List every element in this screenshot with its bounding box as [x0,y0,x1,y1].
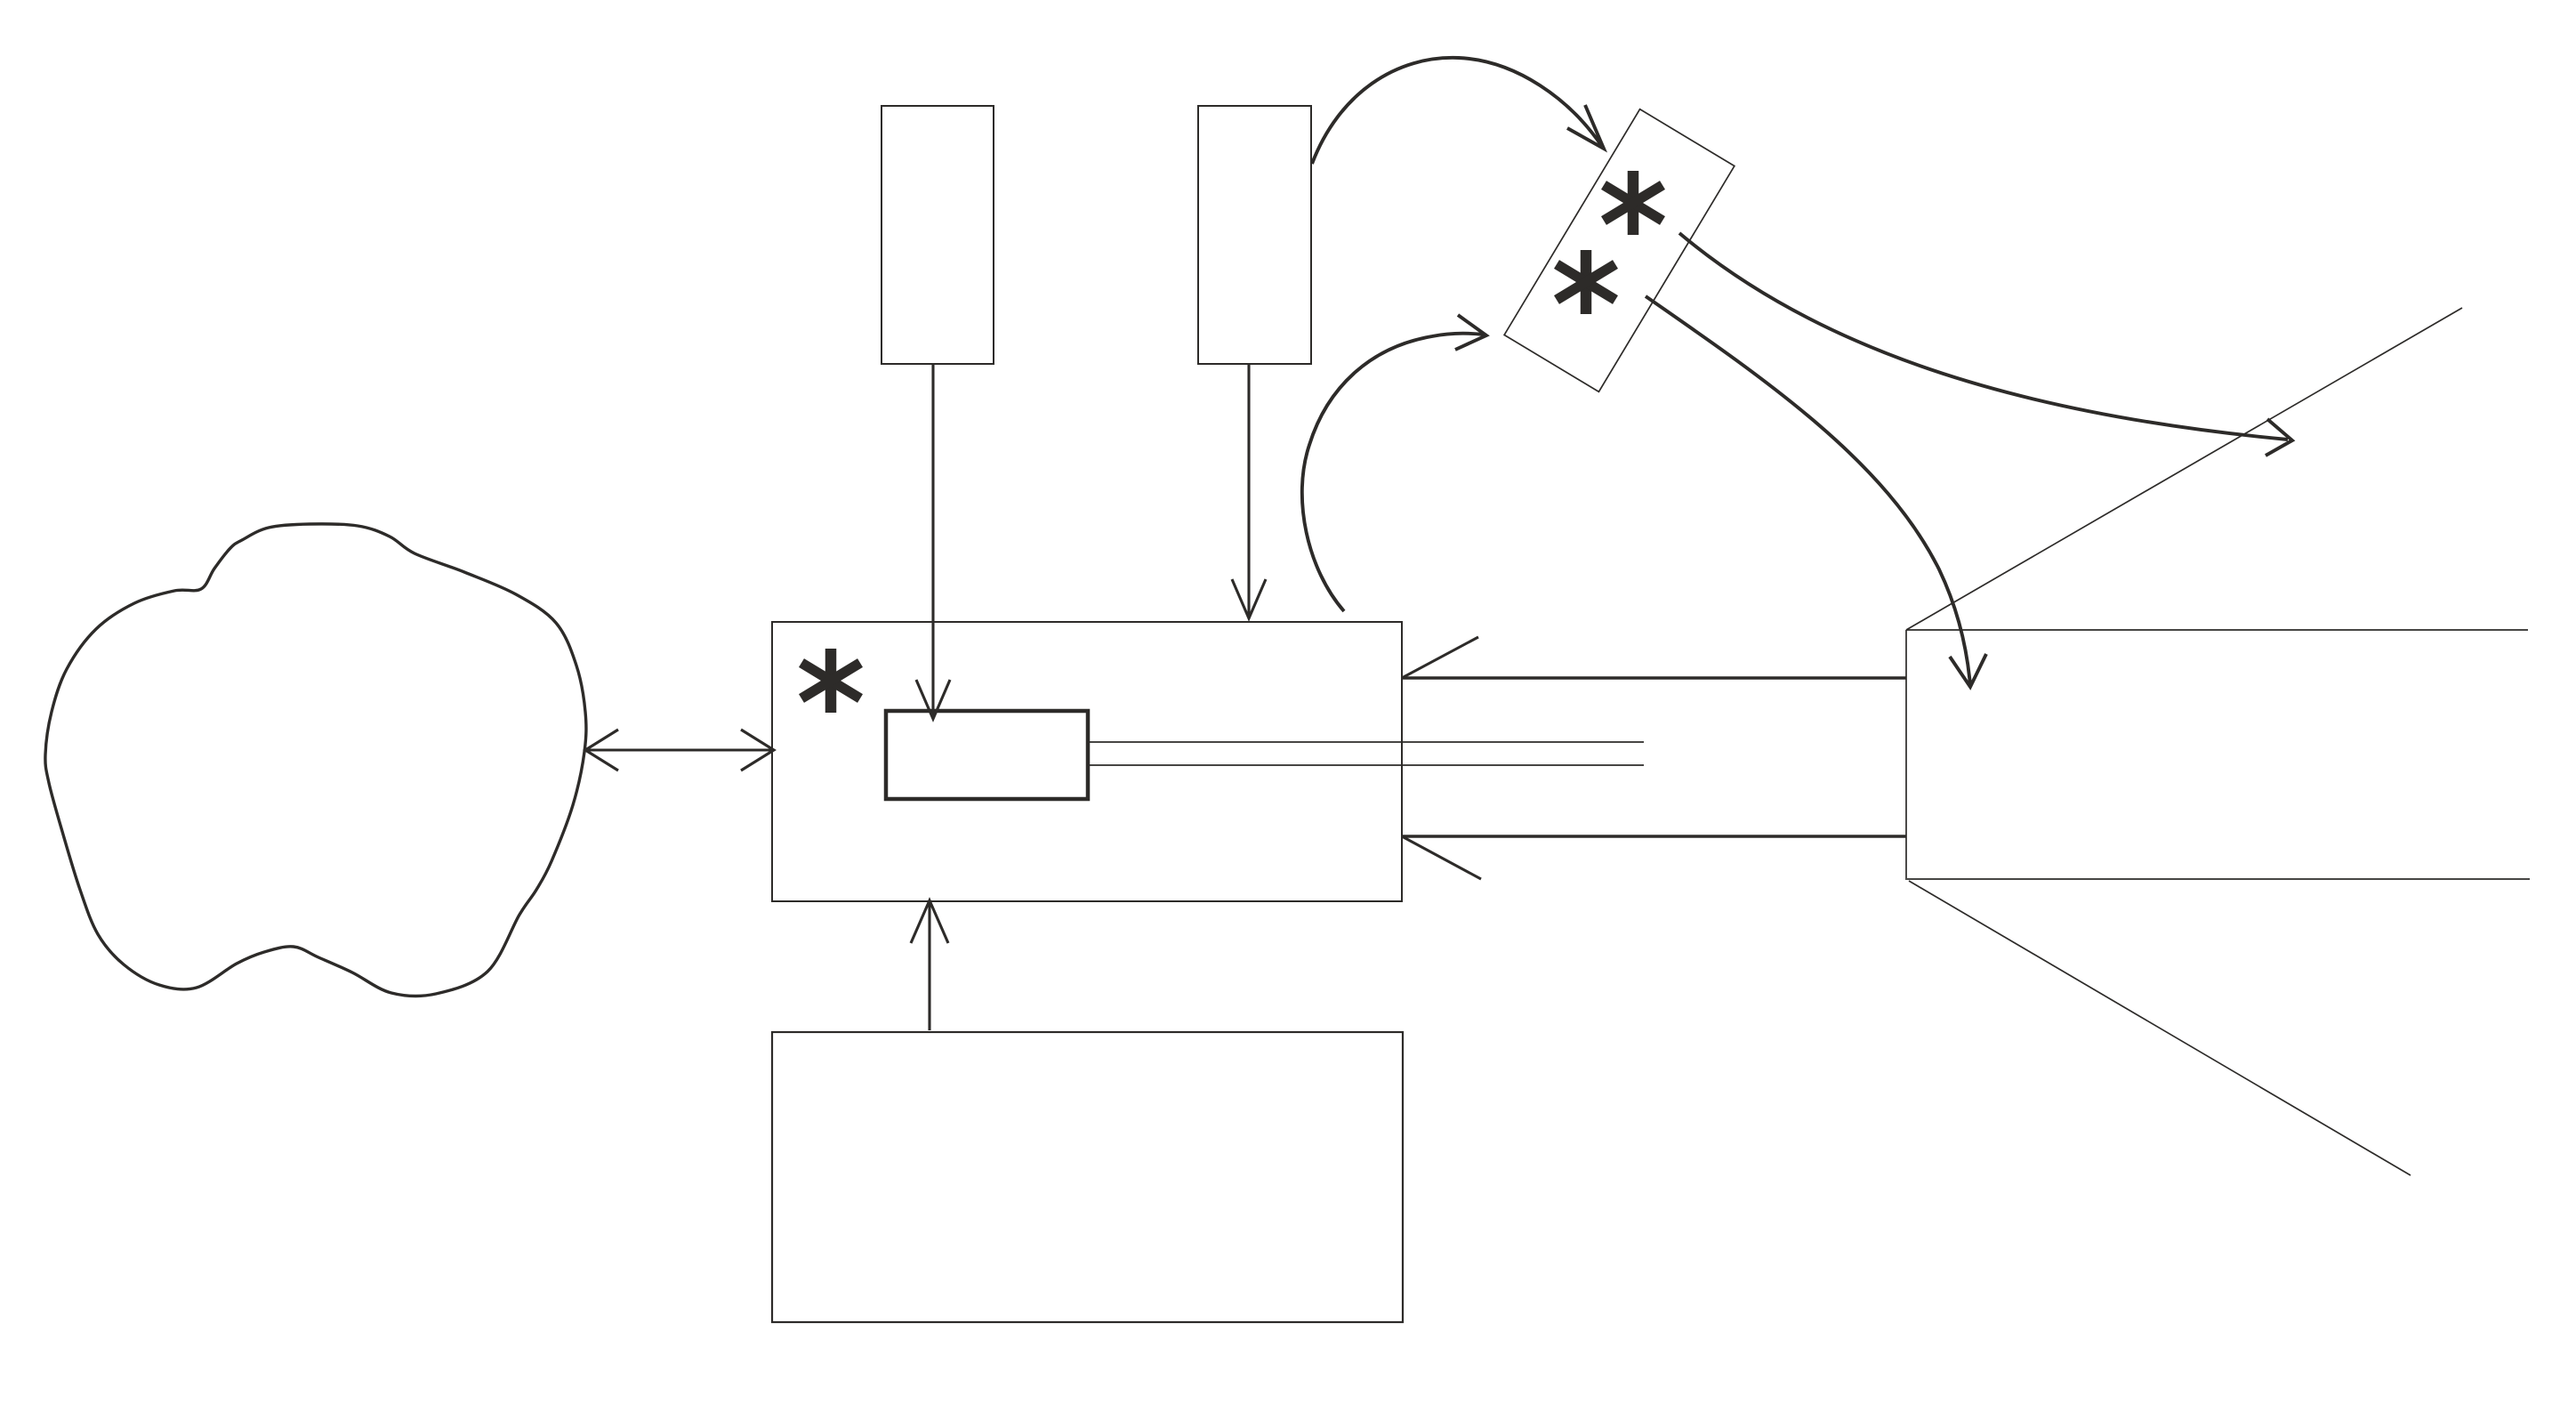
box T1 [881,106,994,364]
central box [772,622,1402,901]
curved arrow T2 to tilted box [1312,58,1604,164]
signal line 2 [1088,764,1644,766]
horn top edge [1906,629,2528,631]
asterisk A (tilted box upper) [1604,171,1662,235]
inner register box [886,711,1088,799]
cloud blob [45,524,586,996]
horn bottom edge [1907,878,2530,880]
arrow from T1 to inner box [916,364,950,719]
harpoon arrow lower [1402,836,1906,879]
asterisk (central box) [801,649,860,713]
signal line 1 [1088,741,1644,743]
double-headed arrow blob to central box [585,730,774,771]
arrow from bottom box to central box [911,900,948,1030]
bottom box [772,1032,1403,1322]
curve from tilted box into right horn (line B) [1646,296,1986,687]
asterisk B (tilted box lower) [1557,250,1615,314]
box T2 [1198,106,1311,364]
tilted box [1504,109,1735,392]
curved arrow central box to tilted box [1302,315,1486,611]
horn upper diagonal [1906,308,2462,630]
arrow from T2 to central box [1232,364,1266,618]
curve from tilted box to diagonal (line A) [1679,233,2292,456]
horn lower diagonal [1909,881,2411,1175]
harpoon arrow upper [1402,637,1906,678]
horn left edge [1905,630,1907,880]
